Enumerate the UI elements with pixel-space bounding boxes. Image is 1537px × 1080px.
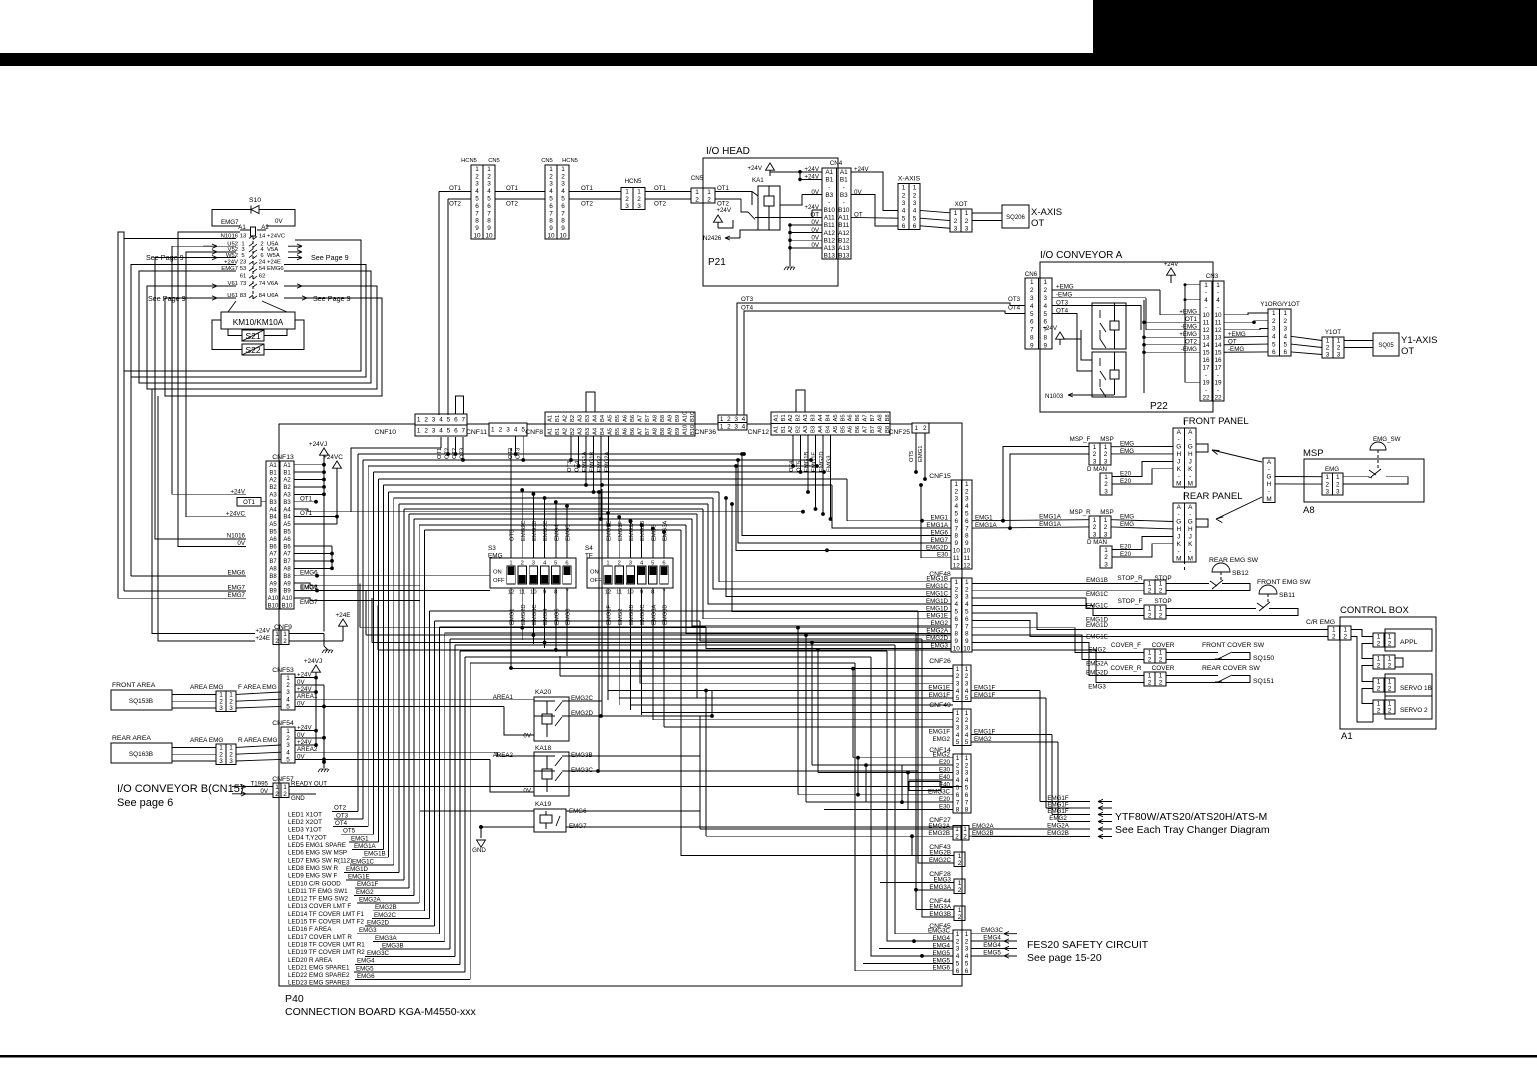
svg-text:4: 4 (956, 732, 960, 739)
svg-text:2: 2 (727, 423, 731, 430)
svg-text:EMG4: EMG4 (554, 524, 560, 541)
svg-text:A9: A9 (283, 581, 291, 587)
svg-text:3: 3 (1283, 326, 1287, 333)
svg-text:OT4: OT4 (1008, 305, 1021, 312)
connector spare mid (1373, 655, 1395, 669)
S4 bottom connections to CNF49/CNF26 (607, 691, 609, 700)
svg-text:-: - (1217, 387, 1219, 394)
wire nested loop 4 (147, 286, 377, 389)
svg-text:3: 3 (954, 594, 958, 601)
svg-text:A11: A11 (824, 215, 835, 222)
svg-text:3: 3 (432, 417, 436, 424)
svg-text:EMG1E: EMG1E (1086, 634, 1108, 641)
wire signal bus EMG3C (454, 645, 456, 957)
svg-text:STOP_F: STOP_F (1118, 598, 1143, 605)
wire OT4 into lower relay block (1052, 314, 1092, 371)
svg-text:B8: B8 (269, 574, 277, 580)
svg-text:A12: A12 (838, 230, 850, 237)
svg-text:3: 3 (625, 203, 629, 210)
svg-text:10: 10 (547, 233, 555, 240)
svg-text:4: 4 (1043, 303, 1047, 310)
svg-text:10: 10 (559, 233, 567, 240)
svg-text:16: 16 (1214, 357, 1222, 364)
svg-text:4: 4 (439, 428, 443, 435)
svg-text:8: 8 (475, 218, 479, 225)
svg-text:2: 2 (963, 833, 967, 840)
pill shroud above CNF12 (796, 390, 805, 412)
svg-text:2: 2 (965, 586, 969, 593)
svg-text:-: - (1178, 473, 1180, 480)
svg-text:A1: A1 (773, 426, 779, 433)
svg-text:2: 2 (958, 887, 962, 894)
svg-text:G: G (1267, 474, 1272, 481)
svg-text:B2: B2 (570, 415, 576, 422)
wire signal bus EMG4 (459, 651, 461, 964)
svg-text:B8: B8 (660, 428, 666, 435)
svg-text:OT2: OT2 (506, 200, 519, 207)
wires CN4 0V group with dots (790, 224, 822, 226)
wires SQ153B to AREA EMG front (172, 693, 216, 695)
wire EMG1 S3 col1 to CNF26 (511, 668, 953, 670)
svg-text:H: H (1176, 451, 1181, 458)
svg-text:EMG6: EMG6 (267, 266, 284, 272)
svg-text:9: 9 (1043, 342, 1047, 349)
arrow to rear panel tab (1216, 497, 1262, 519)
svg-text:A6: A6 (848, 414, 854, 421)
wires EMG connector to switch (1343, 476, 1368, 478)
svg-text:LED2 X2OT: LED2 X2OT (288, 819, 322, 826)
svg-text:Y1OT: Y1OT (1325, 329, 1341, 336)
wires KA19 (420, 810, 534, 812)
E20/E30 link verticals near CNF14 (907, 773, 909, 810)
mid verticals 599-602 (598, 493, 600, 771)
svg-text:2: 2 (1388, 686, 1392, 693)
svg-text:3: 3 (1093, 458, 1097, 465)
module I/O HEAD outline P21 (703, 158, 838, 286)
svg-text:B6: B6 (630, 428, 636, 435)
wire signal bus EMG2C (428, 611, 430, 918)
svg-text:19: 19 (1202, 379, 1210, 386)
svg-text:16: 16 (1202, 357, 1210, 364)
svg-text:EMG1B: EMG1B (364, 851, 386, 858)
svg-text:3: 3 (286, 742, 290, 749)
svg-text:OT1: OT1 (506, 185, 519, 192)
svg-text:CN3: CN3 (1206, 273, 1219, 280)
wire signal bus EMG2D (434, 621, 436, 926)
wires CNF13 right rows A1-A3 to +24VJ rail (294, 464, 324, 466)
svg-text:1: 1 (1325, 474, 1329, 481)
svg-text:B3: B3 (585, 415, 591, 422)
svg-text:SQ153B: SQ153B (129, 698, 153, 705)
wire drops CNF12 signals (792, 435, 794, 466)
svg-text:EMG6: EMG6 (357, 973, 375, 980)
svg-text:COVER_R: COVER_R (1111, 665, 1142, 672)
svg-text:22: 22 (1214, 394, 1222, 401)
svg-text:A8: A8 (877, 414, 883, 421)
svg-text:3: 3 (219, 705, 223, 712)
svg-text:6: 6 (1283, 349, 1287, 356)
svg-text:9: 9 (487, 225, 491, 232)
svg-text:1: 1 (695, 189, 699, 196)
wire signal bus EMG1B (388, 492, 390, 857)
svg-text:OT1: OT1 (654, 185, 667, 192)
svg-text:EMG1A: EMG1A (1039, 513, 1062, 520)
svg-text:4: 4 (742, 416, 746, 423)
svg-text:B1: B1 (269, 470, 277, 476)
svg-text:1: 1 (1159, 650, 1163, 657)
svg-text:2: 2 (1159, 588, 1163, 595)
svg-text:7: 7 (956, 799, 960, 806)
svg-text:1: 1 (491, 427, 495, 434)
wire 0V CN4-B3 to X-AXIS pin6 (851, 195, 898, 226)
svg-text:5: 5 (549, 196, 553, 203)
svg-text:-: - (843, 184, 845, 191)
svg-text:1: 1 (1388, 679, 1392, 686)
svg-text:A3: A3 (269, 493, 277, 499)
wire OT2 drop to CNF10 pin5 (447, 199, 449, 415)
svg-text:B9: B9 (675, 415, 681, 422)
svg-text:+24V: +24V (255, 628, 270, 635)
svg-text:A: A (1188, 504, 1193, 511)
wires CNF54 to rails (295, 730, 316, 732)
wire CNF13 0V row left loop (178, 232, 246, 546)
S3 bottom connections (520, 626, 524, 630)
svg-text:LED3 Y1OT: LED3 Y1OT (288, 827, 322, 834)
svg-text:AREA2: AREA2 (493, 752, 514, 759)
wires CNF26 right (971, 690, 1040, 692)
svg-text:1: 1 (417, 417, 421, 424)
svg-text:B4: B4 (600, 414, 606, 422)
svg-text:A7: A7 (863, 414, 869, 421)
svg-text:OT1: OT1 (1185, 316, 1198, 323)
svg-text:CN4: CN4 (830, 160, 843, 167)
svg-text:7: 7 (561, 210, 565, 217)
svg-text:A5: A5 (833, 426, 839, 433)
svg-text:CNF13: CNF13 (272, 454, 294, 461)
wire signal bus EMG1A (383, 485, 385, 850)
svg-text:13: 13 (1202, 334, 1210, 341)
svg-text:2: 2 (561, 173, 565, 180)
svg-text:SB11: SB11 (1279, 592, 1295, 599)
svg-text:B4: B4 (825, 414, 831, 422)
svg-text:STOP: STOP (1154, 575, 1171, 582)
svg-text:5: 5 (956, 739, 960, 746)
svg-text:B9: B9 (675, 428, 681, 435)
box KM10/KM10A (221, 312, 295, 329)
svg-text:4: 4 (742, 423, 746, 430)
svg-text:A13: A13 (838, 245, 850, 252)
svg-text:EMG3C: EMG3C (367, 950, 390, 957)
svg-text:3: 3 (637, 203, 641, 210)
ground symbol in I/O HEAD (789, 252, 791, 266)
svg-text:3: 3 (956, 680, 960, 687)
svg-text:COVER: COVER (1152, 665, 1175, 672)
svg-text:3: 3 (965, 225, 969, 232)
svg-text:10: 10 (963, 646, 971, 653)
svg-text:6: 6 (956, 968, 960, 975)
svg-text:LED11 TF EMG SW1: LED11 TF EMG SW1 (288, 888, 348, 895)
svg-text:B2: B2 (269, 485, 277, 491)
wires Y1ORG to Y1OT (1291, 336, 1322, 340)
svg-text:A5: A5 (833, 414, 839, 421)
svg-text:A10: A10 (268, 596, 279, 602)
svg-text:LED9 EMG SW F: LED9 EMG SW F (288, 873, 337, 880)
svg-text:EMG2D: EMG2D (521, 604, 527, 625)
svg-text:B7: B7 (870, 414, 876, 421)
svg-text:5: 5 (965, 511, 969, 518)
wire OT1 from B3 right (294, 501, 316, 503)
svg-text:4: 4 (965, 601, 969, 608)
svg-text:2: 2 (727, 416, 731, 423)
svg-text:GND: GND (291, 795, 305, 802)
svg-text:LED17 COVER LMT R: LED17 COVER LMT R (288, 934, 352, 941)
svg-text:12: 12 (1214, 327, 1222, 334)
svg-text:2: 2 (1148, 613, 1152, 620)
svg-text:A6: A6 (848, 426, 854, 433)
svg-text:A11: A11 (838, 215, 849, 222)
svg-text:AREA EMG: AREA EMG (190, 737, 223, 744)
svg-text:4: 4 (913, 208, 917, 215)
svg-text:EMG2C: EMG2C (374, 912, 397, 919)
svg-text:2: 2 (424, 417, 428, 424)
svg-text:CN6: CN6 (1025, 271, 1038, 278)
svg-text:3: 3 (902, 200, 906, 207)
svg-text:LED15 TF COVER LMT F2: LED15 TF COVER LMT F2 (288, 919, 365, 926)
svg-text:4: 4 (965, 688, 969, 695)
wire +24V CN4 to X-AXIS pin4 (851, 172, 898, 211)
svg-text:A2: A2 (283, 478, 291, 484)
wires CNF26 rows 2-3 left (560, 675, 953, 677)
wires CNF27 left stubs (700, 828, 953, 830)
svg-text:A9: A9 (667, 415, 673, 422)
svg-text:FRONT COVER SW: FRONT COVER SW (1202, 642, 1265, 649)
svg-text:2: 2 (958, 914, 962, 921)
svg-text:2: 2 (1325, 481, 1329, 488)
svg-text:CNF11: CNF11 (466, 429, 487, 436)
svg-text:2: 2 (1148, 680, 1152, 687)
svg-text:3: 3 (1104, 488, 1108, 495)
svg-text:1: 1 (487, 166, 491, 173)
dashed centerline front panel (1184, 420, 1186, 495)
svg-text:1: 1 (1204, 282, 1208, 289)
svg-text:1: 1 (1377, 679, 1381, 686)
svg-text:1: 1 (1104, 517, 1108, 524)
svg-text:2: 2 (1377, 641, 1381, 648)
svg-text:EMG3C: EMG3C (571, 767, 594, 774)
svg-text:EMG7: EMG7 (300, 599, 318, 606)
svg-text:62: 62 (259, 273, 266, 279)
svg-text:EMG1C: EMG1C (352, 858, 375, 865)
svg-text:B1: B1 (781, 414, 787, 421)
svg-text:SQ163B: SQ163B (129, 751, 153, 758)
svg-text:1: 1 (965, 710, 969, 717)
svg-text:-: - (1205, 304, 1207, 311)
wire CNF13 +24VC row to KM10 area (186, 252, 246, 517)
svg-text:4: 4 (965, 732, 969, 739)
svg-text:B10: B10 (690, 412, 696, 422)
svg-text:B2: B2 (796, 426, 802, 433)
svg-text:2: 2 (283, 638, 287, 645)
wire drops CNF10 pins (440, 437, 442, 448)
svg-text:I/O CONVEYOR A: I/O CONVEYOR A (1040, 250, 1123, 261)
svg-text:7: 7 (954, 623, 958, 630)
svg-text:EMG2C: EMG2C (640, 604, 646, 625)
svg-text:B5: B5 (269, 530, 277, 536)
svg-text:A7: A7 (283, 552, 291, 558)
svg-text:EMG3B: EMG3B (382, 942, 404, 949)
svg-text:1: 1 (1283, 310, 1287, 317)
svg-text:10: 10 (953, 646, 961, 653)
svg-text:B4: B4 (269, 515, 277, 521)
wire signal bus OT3 (362, 460, 364, 819)
svg-text:2: 2 (1093, 524, 1097, 531)
svg-text:EMG6: EMG6 (227, 570, 245, 577)
wire OT3 from CNF36 up to CN6 (737, 303, 1010, 415)
rear panel tab (1196, 519, 1208, 527)
svg-text:A1: A1 (840, 169, 848, 176)
wire CNF13 EMG7 rows to KM10 (124, 590, 246, 592)
svg-text:-: - (1189, 548, 1191, 555)
svg-text:2: 2 (637, 196, 641, 203)
wire nested loop 3 (139, 271, 371, 383)
svg-text:6: 6 (1030, 319, 1034, 326)
svg-text:B10: B10 (838, 207, 850, 214)
svg-text:+24VC: +24VC (267, 234, 286, 240)
wire signal bus EMG2A (418, 525, 420, 903)
svg-text:EMG4: EMG4 (357, 958, 375, 965)
svg-text:2: 2 (1104, 524, 1108, 531)
svg-text:HCN5: HCN5 (562, 158, 578, 164)
svg-text:LED7 EMG SW R(112): LED7 EMG SW R(112) (288, 857, 352, 864)
svg-text:LED6 EMG SW MSP: LED6 EMG SW MSP (288, 850, 347, 857)
svg-text:1: 1 (1104, 547, 1108, 554)
svg-text:OT3: OT3 (1008, 296, 1021, 303)
svg-text:EMG1A: EMG1A (582, 452, 588, 472)
svg-text:1: 1 (625, 188, 629, 195)
relay contact block lower in P22 (1092, 352, 1126, 397)
svg-text:B6: B6 (855, 414, 861, 421)
svg-text:LED10 C/R GOOD: LED10 C/R GOOD (288, 880, 341, 887)
svg-text:4: 4 (439, 417, 443, 424)
svg-text:ON: ON (493, 570, 502, 576)
svg-text:1: 1 (275, 631, 279, 638)
wire nested loop 1 (124, 239, 361, 372)
svg-text:7: 7 (549, 210, 553, 217)
svg-text:XOT: XOT (955, 201, 968, 208)
svg-text:74: 74 (259, 281, 266, 287)
control box daisy-chain wiring (1351, 630, 1373, 637)
wire signal bus EMG1C (393, 498, 395, 865)
dashed centerline rear panel (1184, 495, 1186, 570)
svg-text:15: 15 (1202, 349, 1210, 356)
svg-text:EMG1: EMG1 (918, 446, 924, 462)
svg-text:+24E: +24E (255, 635, 270, 642)
svg-text:OT1: OT1 (449, 185, 462, 192)
svg-text:2: 2 (1388, 708, 1392, 715)
svg-text:2: 2 (902, 192, 906, 199)
svg-text:3: 3 (506, 427, 510, 434)
svg-text:FRONT EMG SW: FRONT EMG SW (1257, 579, 1311, 586)
svg-text:7: 7 (965, 525, 969, 532)
svg-text:EMG3A: EMG3A (651, 605, 657, 625)
svg-text:9: 9 (1030, 342, 1034, 349)
svg-text:EMG1A: EMG1A (354, 843, 377, 850)
+24V wire into relays (1063, 330, 1081, 339)
svg-text:2: 2 (475, 173, 479, 180)
svg-text:5: 5 (956, 785, 960, 792)
svg-text:2: 2 (1377, 663, 1381, 670)
svg-text:17: 17 (1214, 364, 1222, 371)
svg-text:LED16 F AREA: LED16 F AREA (288, 926, 332, 933)
svg-text:+24V: +24V (747, 165, 762, 172)
svg-text:CNF10: CNF10 (374, 429, 396, 436)
svg-text:6: 6 (965, 616, 969, 623)
svg-text:3: 3 (954, 225, 958, 232)
svg-text:ON: ON (590, 570, 599, 576)
wires CNF28 p1 left stub (880, 882, 954, 884)
svg-text:A2: A2 (562, 415, 568, 422)
svg-text:4: 4 (1030, 303, 1034, 310)
wires KM10 to S21/S22 (228, 329, 242, 336)
svg-text:B11: B11 (824, 222, 835, 229)
wire EMG1 CNF15 to MSP_F/MSP_R (972, 520, 1089, 521)
svg-text:1: 1 (1093, 517, 1097, 524)
svg-text:B9: B9 (283, 589, 291, 595)
svg-text:A2: A2 (788, 426, 794, 433)
svg-text:A5: A5 (607, 428, 613, 435)
svg-text:EMG2A: EMG2A (1086, 660, 1109, 667)
svg-text:EMG1C: EMG1C (1086, 591, 1109, 598)
svg-text:OT: OT (1031, 218, 1044, 229)
svg-text:FRONT PANEL: FRONT PANEL (1183, 416, 1249, 427)
svg-text:-: - (1217, 304, 1219, 311)
wires CNF13 rows B6-A8 to rail (294, 545, 332, 547)
svg-text:LED19 TF COVER LMT R2: LED19 TF COVER LMT R2 (288, 949, 365, 956)
svg-text:+EMG: +EMG (1179, 331, 1197, 338)
svg-text:OT1: OT1 (243, 500, 255, 506)
wires D_MAN front to panel J/K (1112, 461, 1173, 476)
wire AREA1 long (295, 698, 534, 700)
svg-text:K: K (1177, 466, 1182, 473)
wire CNF53 0V to gnd rail (295, 684, 324, 686)
board P40 outline (279, 423, 962, 986)
svg-text:EMG: EMG (1325, 466, 1339, 473)
svg-text:LED12 TF EMG SW2: LED12 TF EMG SW2 (288, 896, 349, 903)
svg-text:2: 2 (958, 860, 962, 867)
svg-text:1: 1 (1337, 338, 1341, 345)
svg-text:+24VC: +24VC (226, 511, 246, 518)
wires above S4 columns (607, 513, 609, 558)
svg-text:EMG2D: EMG2D (367, 919, 390, 926)
svg-text:1: 1 (965, 579, 969, 586)
svg-text:1: 1 (914, 425, 918, 432)
feed verticals from bus C to CNF14 rows (797, 628, 799, 795)
svg-text:1: 1 (417, 428, 421, 435)
svg-text:8: 8 (965, 807, 969, 814)
svg-text:2: 2 (499, 427, 503, 434)
svg-text:2: 2 (956, 717, 960, 724)
svg-text:5: 5 (286, 757, 290, 764)
svg-text:LED20 R AREA: LED20 R AREA (288, 957, 333, 964)
wire OT2 chain (448, 198, 471, 200)
svg-text:A3: A3 (803, 414, 809, 421)
svg-text:B3: B3 (283, 500, 291, 506)
svg-text:2: 2 (1148, 657, 1152, 664)
svg-text:SERVO 1B: SERVO 1B (1400, 685, 1432, 692)
wire CNF13 +24V row to KM10 area (172, 246, 246, 494)
wires AREA EMG rear to CNF54 (236, 745, 281, 747)
svg-text:A10: A10 (282, 596, 293, 602)
